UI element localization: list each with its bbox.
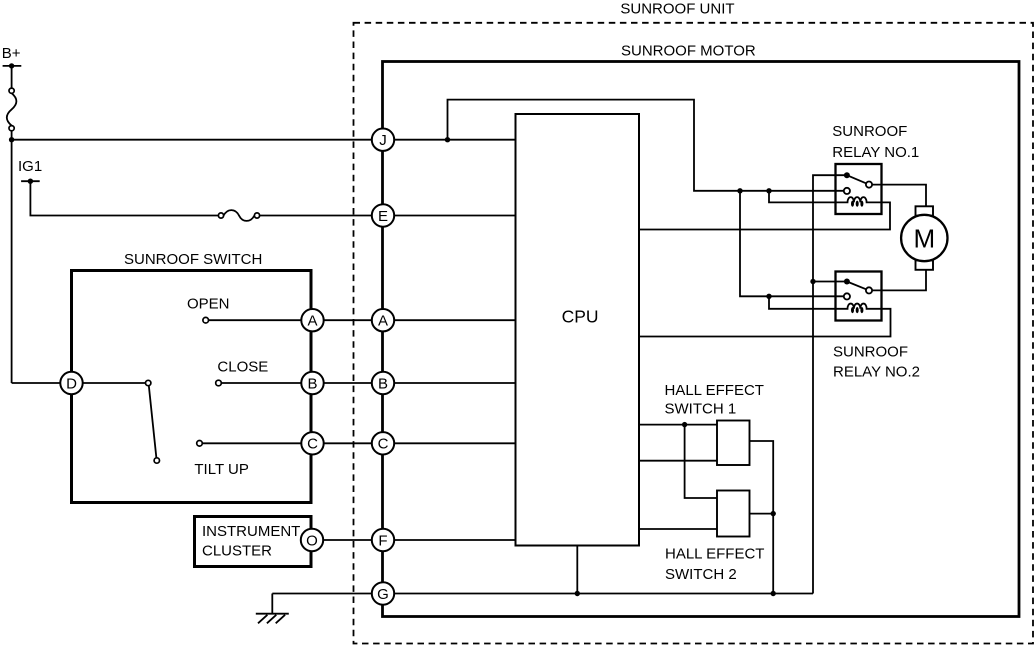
circuit breaker on B+ line (S-curve)	[7, 93, 17, 125]
connector C (motor side)	[372, 432, 394, 454]
IG1 terminal tick	[21, 180, 40, 182]
hall effect switch 2 box	[717, 491, 750, 537]
sunroof switch box	[72, 271, 312, 503]
relay2 output contact	[866, 287, 872, 293]
svg-text:CPU: CPU	[562, 307, 599, 327]
svg-text:TILT UP: TILT UP	[194, 461, 248, 478]
junction below B+ tick	[9, 63, 14, 68]
svg-text:RELAY NO.2: RELAY NO.2	[833, 363, 920, 380]
junction relay2 coil feed	[766, 294, 771, 299]
svg-text:SUNROOF: SUNROOF	[833, 343, 908, 360]
wire row B (CLOSE contact to connector B to CPU)	[219, 382, 516, 384]
wire hall switch 1 output down to G row	[750, 441, 774, 594]
connector G	[372, 582, 394, 604]
wire J branch up-over to relay feed node	[448, 100, 847, 191]
connector O	[301, 529, 323, 551]
svg-text:D: D	[66, 375, 77, 392]
switch pivot contact	[146, 380, 151, 385]
relay2 arm	[847, 282, 869, 291]
relay2 box	[836, 272, 882, 321]
wire branch to hall switch 2 pin 1	[685, 425, 717, 498]
relay1 output contact	[866, 182, 872, 188]
wire row A (OPEN contact to connector A to CPU)	[206, 319, 516, 321]
relay2 common dot	[844, 279, 850, 285]
wire CPU ground pin to G row	[576, 546, 578, 594]
svg-text:RELAY NO.1: RELAY NO.1	[832, 144, 919, 161]
svg-text:J: J	[379, 132, 387, 149]
svg-text:O: O	[306, 532, 318, 549]
svg-text:E: E	[378, 208, 388, 225]
switch arm end contact	[154, 458, 159, 463]
wire CPU to hall switch 2 pin 2	[639, 528, 717, 530]
svg-text:CLUSTER: CLUSTER	[202, 543, 272, 560]
wire CPU to hall switch 1 pin 1	[639, 424, 717, 426]
wire B+ down to breaker	[11, 66, 13, 91]
wire CPU to hall switch 1 pin 2	[639, 460, 717, 462]
wire ground drop	[271, 594, 273, 614]
wire D to switch pivot	[72, 382, 149, 384]
wire relay2 common branch	[813, 281, 847, 283]
breaker bottom contact	[9, 126, 14, 131]
B+ terminal tick	[3, 65, 22, 67]
svg-text:SWITCH 1: SWITCH 1	[665, 401, 737, 418]
fuse left contact	[218, 213, 223, 218]
relay1 common dot	[844, 172, 850, 178]
CPU box	[516, 114, 640, 546]
hall effect switch 1 box	[717, 421, 750, 466]
svg-text:B: B	[378, 375, 388, 392]
ground hatch 1	[258, 615, 267, 624]
wire row C (TILT UP contact to connector C to CPU)	[200, 442, 516, 444]
junction B+ to J row	[9, 137, 14, 142]
ground hatch 2	[267, 615, 276, 624]
wire relay1 coil circuit (feed, coil, return to CPU)	[639, 191, 890, 230]
junction hall output on G row	[771, 591, 776, 596]
ground symbol bar	[256, 613, 289, 615]
junction relay2 feed	[737, 188, 742, 193]
svg-text:C: C	[307, 436, 318, 453]
OPEN contact	[203, 317, 209, 323]
svg-text:B: B	[307, 375, 317, 392]
svg-text:SUNROOF MOTOR: SUNROOF MOTOR	[621, 43, 756, 60]
junction relay2 common	[810, 279, 815, 284]
connector J	[372, 129, 394, 151]
fuse on IG1 line (S-curve)	[224, 210, 255, 221]
relay2 coil loop 1	[851, 307, 854, 313]
svg-text:INSTRUMENT: INSTRUMENT	[202, 523, 300, 540]
junction relay1 coil feed	[766, 188, 771, 193]
wire relay1 output to motor top	[872, 185, 926, 207]
wire hall switch 2 output	[750, 513, 774, 515]
svg-text:SWITCH 2: SWITCH 2	[665, 566, 737, 583]
svg-text:C: C	[378, 436, 389, 453]
wire fuse to connector E to CPU	[257, 215, 516, 217]
relay1 box	[836, 164, 882, 214]
wire row G (ground to connector G to relay common line)	[272, 593, 813, 595]
connector B (motor side)	[372, 372, 394, 394]
wire relay2 coil circuit (feed, coil, return to CPU)	[639, 296, 891, 336]
wire breaker to D row	[11, 128, 13, 383]
sunroof unit boundary (dashed box)	[354, 23, 1034, 644]
junction on J wire	[445, 137, 450, 142]
sunroof motor box	[383, 62, 1020, 617]
connector F	[372, 529, 394, 551]
svg-text:SUNROOF UNIT: SUNROOF UNIT	[620, 0, 734, 17]
TILT UP contact	[197, 441, 203, 447]
svg-text:A: A	[378, 313, 388, 330]
motor top terminal	[916, 206, 934, 216]
instrument cluster box	[195, 517, 312, 567]
relay2 coil loop 2	[856, 307, 859, 313]
svg-text:SUNROOF SWITCH: SUNROOF SWITCH	[124, 251, 262, 268]
wire D feed	[12, 382, 72, 384]
wire relay2 switch feed	[740, 191, 847, 296]
svg-text:HALL EFFECT: HALL EFFECT	[665, 546, 764, 563]
relay1 coil loop 2	[856, 201, 859, 207]
motor M body	[901, 215, 947, 261]
junction hall feed	[682, 422, 687, 427]
relay1 feed contact	[844, 188, 850, 194]
wire IG1 down and right to fuse	[30, 181, 221, 215]
connector A (switch side)	[301, 309, 323, 331]
wire relay2 output to motor bottom	[872, 270, 926, 291]
CLOSE contact	[216, 380, 222, 386]
svg-text:B+: B+	[2, 45, 21, 62]
junction hall outputs	[771, 511, 776, 516]
svg-text:A: A	[307, 313, 317, 330]
relay1 coil loop 1	[851, 201, 854, 207]
svg-text:OPEN: OPEN	[187, 296, 230, 313]
connector C (switch side)	[301, 432, 323, 454]
svg-text:F: F	[378, 532, 387, 549]
connector A (motor side)	[372, 309, 394, 331]
junction below IG1 tick	[28, 179, 33, 184]
breaker top contact	[9, 88, 14, 93]
connector D	[60, 372, 82, 394]
relay1 arm	[847, 175, 869, 184]
motor bottom terminal	[916, 260, 934, 270]
relay2 feed contact	[844, 293, 850, 299]
fuse right contact	[254, 213, 259, 218]
svg-text:M: M	[913, 223, 935, 253]
svg-text:G: G	[377, 586, 389, 603]
switch arm (movable contact)	[149, 386, 157, 459]
svg-text:CLOSE: CLOSE	[217, 359, 268, 376]
ground hatch 3	[276, 615, 285, 624]
junction CPU ground on G row	[575, 591, 580, 596]
svg-text:HALL EFFECT: HALL EFFECT	[665, 382, 764, 399]
connector B (switch side)	[301, 372, 323, 394]
connector E	[372, 204, 394, 226]
wire relay commons ground line	[813, 175, 847, 593]
relay1 coil loop 3	[860, 201, 863, 207]
wire row J (B+ to connector J to CPU)	[12, 139, 516, 141]
svg-text:SUNROOF: SUNROOF	[832, 123, 907, 140]
relay2 coil loop 3	[860, 307, 863, 313]
wire row F (connector O to connector F to CPU)	[312, 539, 516, 541]
svg-text:IG1: IG1	[18, 158, 42, 175]
